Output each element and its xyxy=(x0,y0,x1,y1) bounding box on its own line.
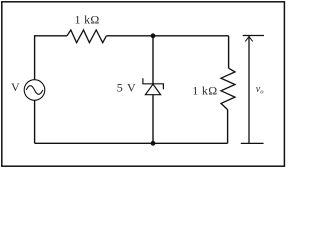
svg-text:1 kΩ: 1 kΩ xyxy=(75,13,100,27)
svg-text:V: V xyxy=(11,80,20,94)
node junction top (dot) xyxy=(151,33,156,38)
wire top-left to resistor xyxy=(35,35,67,37)
svg-text:5 V: 5 V xyxy=(117,81,137,95)
resistor R2 xyxy=(221,68,235,109)
wire left branch lower xyxy=(34,100,36,143)
vo measurement top tick xyxy=(243,35,264,37)
wire resistor to top-right corner xyxy=(106,35,228,37)
wire right branch upper xyxy=(228,36,230,68)
wire zener branch upper xyxy=(152,36,154,84)
node junction bottom (dot) xyxy=(151,141,156,146)
resistor R1 xyxy=(67,30,106,43)
vo measurement shaft xyxy=(248,36,250,143)
vo measurement bottom tick xyxy=(241,142,264,144)
zener diode D1 xyxy=(143,78,164,94)
vo measurement arrowhead xyxy=(245,37,252,42)
wire left branch upper xyxy=(34,35,36,80)
source V (AC) xyxy=(24,80,45,101)
wire right branch lower xyxy=(227,110,229,144)
wire bottom xyxy=(35,142,228,144)
svg-text:1 kΩ: 1 kΩ xyxy=(192,83,217,97)
svg-text:vo: vo xyxy=(256,84,264,96)
wire zener branch lower xyxy=(152,95,154,144)
